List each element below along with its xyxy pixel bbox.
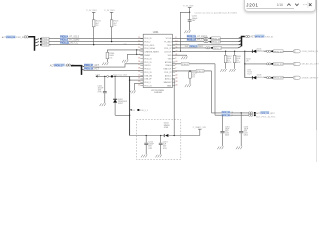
bus entries (239, 37, 242, 38)
resistor label R212 (244, 63, 245, 64)
find bar down chevron (295, 4, 298, 6)
wire I2C row 2 (35, 42, 39, 44)
wire XTALIN (172, 63, 215, 65)
wire (111, 27, 113, 42)
jumper circles J201 (24, 36, 26, 38)
detect row DE_AT_DC_DET (245, 63, 294, 65)
svg-text:J201: J201 (246, 3, 258, 8)
port arrow (96, 75, 98, 77)
wire from V1 to IC pin (130, 79, 144, 81)
svg-text:1/16: 1/16 (277, 3, 284, 7)
IC U201 right pin stubs (172, 37, 175, 39)
page border right (316, 0, 317, 130)
ground (181, 57, 187, 60)
ground (141, 155, 147, 158)
off-page connector (293, 50, 300, 53)
ground (236, 147, 242, 150)
capacitor C204 (189, 12, 191, 19)
diode (251, 50, 253, 53)
net label PIO1_31 (222, 111, 231, 114)
wire to ground right of IC (172, 55, 186, 56)
wire (93, 27, 95, 45)
capacitor C211 100nF (104, 76, 106, 91)
wire row3 (172, 44, 241, 46)
jumper circles (245, 35, 247, 37)
ground (185, 84, 191, 87)
wire to VDD pin (180, 12, 189, 51)
find bar separator (307, 2, 309, 9)
wire UART row 2 (172, 41, 241, 43)
find bar up chevron (287, 4, 290, 6)
resistor R207 pulldown (225, 51, 227, 55)
net label PIO0_21 (60, 41, 69, 44)
resistor R208 pulldown (234, 51, 236, 55)
find bar close (309, 3, 312, 6)
ground (100, 103, 106, 106)
TVS diode D202 (114, 76, 116, 99)
vertical wire V1 (129, 76, 131, 135)
wire RESET row (107, 50, 143, 53)
ground (184, 30, 190, 33)
IC U201 body (143, 34, 172, 87)
find bar dots (303, 4, 304, 5)
off-page connector (293, 62, 300, 65)
bus (thick wire) right (242, 37, 245, 47)
wire to ground (126, 54, 128, 59)
off-page connector (293, 76, 300, 79)
net tie (111, 75, 113, 77)
IC U201 left pin stubs (140, 37, 143, 39)
wire to ground (135, 83, 144, 90)
net tie (254, 112, 256, 114)
wire UART row 1 (172, 37, 241, 39)
wire row PIO0_17 (82, 66, 85, 68)
ground (217, 147, 223, 150)
bus (thick wire) (71, 66, 82, 75)
jumper circles (249, 112, 251, 114)
detect row DS/DE_DETECT (245, 77, 294, 79)
vertical wire detect (244, 51, 246, 77)
RTC row1 (212, 112, 249, 114)
net label PIO0_5 (60, 38, 68, 41)
ground (129, 91, 135, 94)
ISP row (172, 47, 238, 49)
net label PIO0_4 (60, 35, 68, 38)
wire (136, 50, 138, 55)
ground (229, 69, 235, 72)
capacitor C213 (160, 136, 162, 143)
ground (220, 69, 226, 72)
wire VBAT row (96, 75, 143, 77)
power flag P_VBAT1_SW (199, 129, 201, 135)
jumper circles (249, 114, 251, 116)
capacitor C212 (145, 136, 147, 143)
wire XTALOUT (172, 70, 211, 72)
jumper circles J202 (66, 64, 68, 66)
wire I2C row 1 (35, 39, 39, 41)
wire VBAT rail (130, 135, 165, 137)
wire from IC VBAT pin down (172, 79, 174, 136)
wire (127, 53, 143, 55)
wire rtc1 down (211, 71, 213, 113)
capacitor C215 (222, 115, 224, 131)
wire row PIO0_16 (82, 69, 85, 71)
diode (251, 76, 253, 79)
ground (102, 62, 108, 65)
detect row CUR_DS/DE_IN (245, 50, 294, 52)
find bar input underline (247, 8, 295, 10)
wire 3V3 / CUR_DS row (172, 50, 253, 52)
diode D204 series (163, 134, 165, 137)
RTC row2 (215, 114, 249, 116)
resistor R206 pulldown (106, 52, 109, 58)
wire (115, 114, 130, 116)
port label PIO0_5_1 (130, 109, 132, 111)
find bar overlay (244, 0, 316, 12)
bus (thick wire) left (28, 37, 34, 51)
net tie (254, 114, 256, 116)
wire (169, 135, 200, 137)
wire rtc2 down (214, 64, 216, 115)
wire I2C row 3 (35, 45, 39, 47)
dashed battery box (137, 120, 181, 160)
ground (156, 155, 162, 158)
ground (122, 60, 128, 63)
resistor R204 4k7 pull-up (93, 12, 95, 19)
resistor R210 (189, 70, 191, 73)
resistor R205 4k7 pull-up (111, 12, 113, 19)
net label PIO1_30 (222, 114, 231, 117)
jumper circle (107, 75, 109, 77)
capacitor C216 (240, 113, 242, 131)
